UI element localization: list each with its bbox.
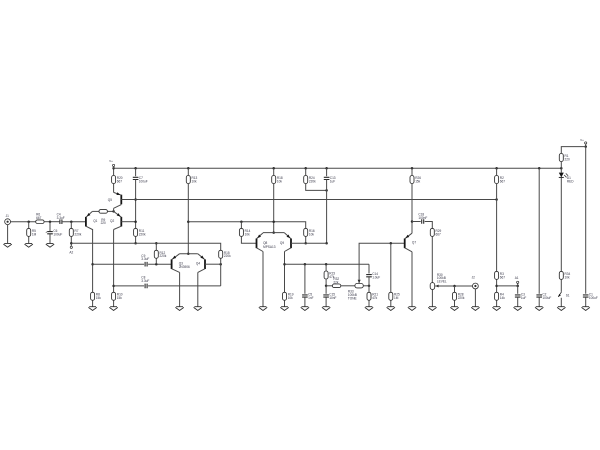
svg-text:Q9: Q9 [280, 241, 284, 245]
wire [44, 221, 60, 223]
node [495, 285, 498, 288]
wire [411, 168, 413, 175]
wire V+ rail [114, 167, 562, 169]
capacitor C2 [536, 295, 542, 297]
ground [259, 307, 267, 311]
wire [273, 168, 275, 175]
resistor R14 [239, 228, 243, 236]
wire [325, 297, 327, 307]
wire R33 wiper to Q7 base [359, 243, 405, 283]
ground [109, 307, 117, 311]
wire [304, 297, 306, 307]
wire [305, 168, 307, 175]
capacitor C5 [302, 295, 308, 297]
svg-text:Q4: Q4 [196, 261, 200, 265]
wire [326, 285, 332, 287]
wire [114, 285, 145, 287]
ground [514, 307, 522, 311]
ground [3, 243, 11, 247]
transistor Q2 [120, 217, 122, 227]
wire Q8 collector [257, 248, 264, 252]
wire [496, 301, 498, 307]
wire [155, 259, 157, 265]
node [272, 220, 275, 223]
wire Q3 collector [172, 269, 180, 273]
wire [425, 222, 433, 229]
wire [28, 222, 30, 229]
wire [517, 286, 519, 294]
ground [535, 307, 543, 311]
node [453, 285, 456, 288]
node [187, 220, 190, 223]
node [155, 242, 158, 245]
node [584, 145, 587, 148]
node [325, 263, 328, 266]
transistor Q3 [171, 259, 173, 269]
wire Q2 collector [113, 230, 115, 293]
wire R30 wiper to J2 [435, 285, 472, 287]
wire bias line 2 [71, 243, 220, 250]
wire bias line [121, 199, 496, 201]
node A2 flag [70, 246, 72, 248]
wire [412, 221, 421, 223]
svg-text:2N3906: 2N3906 [179, 265, 190, 269]
wire [305, 237, 307, 244]
svg-text:A2: A2 [69, 250, 73, 254]
wire [135, 168, 137, 176]
wire [538, 168, 540, 293]
wire Q2 base [121, 221, 135, 223]
resistor R29 [430, 228, 434, 236]
wire [113, 301, 115, 307]
R30 wiper arrow [435, 285, 439, 288]
wire [284, 301, 286, 307]
wire [325, 286, 327, 294]
Q3 emitter arrow [172, 256, 176, 259]
resistor R21 [367, 292, 371, 300]
D1 LED arrows [564, 173, 568, 177]
wire [560, 177, 562, 271]
ground [450, 307, 458, 311]
wire [431, 290, 433, 307]
Q5 emitter arrow [116, 192, 120, 195]
wire [284, 252, 286, 293]
resistor R11 [134, 228, 138, 236]
node [112, 285, 115, 288]
wire tone line [285, 263, 370, 265]
capacitor C15 [323, 295, 329, 297]
wire [220, 259, 222, 286]
node [368, 285, 371, 288]
wire [368, 277, 370, 286]
wire emitters [180, 253, 198, 255]
resistor R7 [69, 228, 73, 236]
node [134, 198, 137, 201]
node bias line left end [70, 242, 73, 245]
Q4 emitter arrow [200, 256, 204, 260]
node V+ power [113, 164, 115, 166]
wire [107, 210, 113, 212]
connector J1 [5, 219, 11, 225]
wire [517, 297, 519, 307]
wire [49, 222, 51, 232]
resistor R12 [154, 250, 158, 258]
wire [496, 280, 498, 293]
wire V+ main drop [585, 147, 587, 294]
wire [262, 252, 264, 307]
diode D1 LED [559, 173, 564, 178]
potentiometer R33 body [355, 284, 363, 288]
capacitor C3 [515, 295, 521, 297]
resistor R24 [304, 176, 308, 184]
node V+ power 2 [585, 142, 587, 144]
wire [179, 272, 181, 306]
wire [135, 237, 137, 244]
ground [194, 307, 202, 311]
wire [363, 285, 369, 287]
transistor Q1 [85, 217, 87, 227]
svg-text:A1: A1 [515, 276, 519, 280]
wire [306, 184, 327, 191]
wire Q7 emitter [405, 233, 412, 239]
wire [240, 222, 242, 229]
wire [560, 168, 562, 172]
resistor R1 [559, 154, 563, 162]
wire Q4 base [205, 263, 221, 265]
node rail junction [272, 167, 275, 170]
svg-text:J1: J1 [6, 214, 10, 218]
capacitor C4 [60, 219, 62, 224]
wire [70, 237, 72, 247]
wire [326, 168, 328, 176]
wire [517, 283, 519, 286]
resistor R28 [453, 292, 457, 300]
node Q8/Q9 junction [272, 231, 275, 234]
node Q2 base junction [134, 220, 137, 223]
node Q9 base junction [325, 242, 328, 245]
svg-text:V+: V+ [109, 159, 113, 163]
svg-text:MPSA13: MPSA13 [263, 245, 276, 249]
wire Q1 emitter [86, 211, 93, 217]
wire [454, 286, 456, 292]
wire [113, 167, 115, 169]
node [325, 189, 328, 192]
node rail junction [560, 167, 563, 170]
svg-text:V+: V+ [580, 138, 584, 142]
node [134, 242, 137, 245]
wire [325, 279, 327, 286]
resistor R25 [389, 292, 393, 300]
node rail junction [411, 167, 414, 170]
svg-text:R29667: R29667 [436, 229, 442, 236]
wire Q2 emitter [114, 211, 122, 217]
resistor R13 [186, 176, 190, 184]
ground [322, 307, 330, 311]
node [283, 263, 286, 266]
wire Q8 emitter [257, 233, 264, 239]
svg-text:Q5: Q5 [108, 198, 112, 202]
wire Q9 emitter [285, 233, 292, 239]
resistor R6 [36, 220, 44, 224]
svg-text:R20667: R20667 [117, 176, 123, 183]
wire Q8 base [241, 237, 256, 244]
ground [365, 307, 373, 311]
wire [497, 285, 518, 287]
wire [390, 301, 392, 307]
ground [25, 243, 33, 247]
resistor R32 [332, 284, 340, 288]
ground [280, 307, 288, 311]
wire Q1 collector [86, 226, 93, 229]
transistor Q8 [256, 239, 258, 249]
wire [135, 180, 137, 229]
wire [390, 243, 392, 292]
wire [431, 237, 433, 283]
wire Q2 collector [114, 226, 122, 229]
wire [368, 264, 370, 273]
node [91, 263, 94, 266]
resistor R8 [91, 292, 95, 300]
node R6/C6 junction [49, 220, 52, 223]
resistor R15 [219, 250, 223, 258]
svg-text:+: + [45, 230, 47, 234]
wire Q4 collector [198, 269, 205, 273]
ground [387, 307, 395, 311]
node A1 flag [517, 281, 519, 283]
ground [46, 243, 54, 247]
node C4/R7 junction [70, 220, 73, 223]
resistor R34 [559, 271, 563, 279]
Q9 emitter arrow [287, 235, 291, 239]
wire [155, 243, 157, 250]
Q1 emitter arrow [87, 213, 91, 217]
node [155, 263, 158, 266]
wire [62, 221, 85, 223]
node [304, 263, 307, 266]
wire [49, 234, 51, 244]
capacitor C18 [422, 219, 424, 224]
wire [560, 280, 562, 292]
resistor R19 [283, 292, 287, 300]
wire [325, 264, 327, 271]
wire [70, 222, 72, 229]
wire [148, 285, 221, 287]
node rail junction [187, 167, 190, 170]
transistor Q7 [404, 239, 406, 249]
wire [273, 184, 275, 233]
wire [304, 264, 306, 294]
connector J2 [473, 283, 479, 289]
resistor R2 [495, 176, 499, 184]
capacitor C9 [145, 262, 147, 267]
wire [496, 184, 498, 272]
node rail junction [304, 167, 307, 170]
wire [560, 162, 562, 169]
capacitor C14 [366, 275, 372, 277]
wire Q3 emitter [172, 254, 180, 260]
wire [28, 237, 30, 244]
transistor Q5 [120, 195, 122, 205]
resistor R10 [112, 292, 116, 300]
wire [113, 208, 115, 211]
node [219, 263, 222, 266]
svg-text:C131uF: C131uF [330, 176, 336, 183]
svg-text:Q1: Q1 [93, 219, 97, 223]
ground [557, 307, 565, 311]
wire [93, 263, 145, 265]
resistor R20 [112, 176, 116, 184]
resistor R26 [410, 176, 414, 184]
wire [474, 289, 476, 307]
node [240, 220, 243, 223]
potentiometer R30 body [430, 283, 435, 290]
ground [471, 307, 479, 311]
wire [113, 168, 115, 175]
wire Q1 collector [91, 230, 93, 293]
wire [326, 180, 328, 244]
node rail junction [495, 167, 498, 170]
wire J1 to ground [7, 225, 9, 244]
node [325, 285, 328, 288]
wire [561, 147, 585, 154]
Q2 emitter arrow [117, 213, 121, 216]
transistor Q9 [290, 239, 292, 249]
wire Q5 emitter [114, 192, 122, 195]
wire Q5 collector [114, 205, 122, 209]
wire Q4 emitter [198, 254, 205, 260]
ground [408, 307, 416, 311]
wire [585, 297, 587, 307]
wire [585, 144, 587, 147]
node [390, 242, 393, 245]
resistor R5 [27, 228, 31, 236]
node [495, 198, 498, 201]
node rail left end [112, 167, 115, 170]
wire input line [11, 221, 36, 223]
Q7 emitter arrow [406, 235, 410, 238]
wire [188, 222, 305, 229]
wire [496, 168, 498, 175]
capacitor C13 [324, 177, 330, 179]
wire [187, 184, 189, 254]
ground [88, 307, 96, 311]
Q8 emitter arrow [257, 235, 261, 239]
svg-text:Q7: Q7 [412, 240, 416, 244]
node [304, 242, 307, 245]
capacitor C8 [145, 284, 147, 289]
node tail junction [112, 210, 115, 213]
capacitor C7 [133, 177, 139, 179]
resistor R4 [495, 292, 499, 300]
ground [582, 307, 590, 311]
resistor R9 [99, 210, 107, 214]
wire [92, 210, 99, 212]
wire [368, 301, 370, 307]
capacitor C1 [583, 295, 589, 297]
node rail junction [134, 167, 137, 170]
switch S1 [558, 292, 561, 297]
resistor R3 [495, 271, 499, 279]
ground [301, 307, 309, 311]
node rail junction [538, 167, 541, 170]
wire [560, 298, 562, 307]
resistor R16 [304, 228, 308, 236]
wire [92, 301, 94, 307]
wire Q9 collector [285, 248, 292, 252]
ground [175, 307, 183, 311]
R33 wiper arrow [358, 280, 361, 284]
node rail junction [325, 167, 328, 170]
node [516, 285, 519, 288]
wire [197, 272, 199, 306]
svg-text:Q2: Q2 [110, 219, 114, 223]
svg-text:J2: J2 [472, 276, 476, 280]
wire [411, 184, 413, 234]
wire [187, 168, 189, 175]
ground [492, 307, 500, 311]
capacitor C6 [47, 232, 53, 234]
resistor R18 [272, 176, 276, 184]
wire [341, 285, 355, 287]
node input/R5 junction [27, 220, 30, 223]
wire [411, 252, 413, 307]
wire [113, 184, 115, 193]
wire [148, 263, 171, 265]
wire [368, 286, 370, 292]
wire [454, 301, 456, 307]
ground [428, 307, 436, 311]
wire [538, 297, 540, 307]
wire Q7 collector [405, 248, 412, 252]
node C18 tap [411, 220, 414, 223]
transistor Q4 [204, 259, 206, 269]
wire emitters [263, 232, 285, 234]
wire Q9 base [291, 242, 327, 244]
node Q3/Q4 emitter junction [187, 252, 190, 255]
svg-text:S1: S1 [566, 294, 570, 298]
resistor R23 [324, 271, 328, 279]
